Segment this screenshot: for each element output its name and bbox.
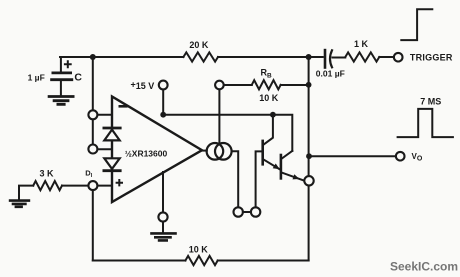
plus polarity mark of C (65, 61, 71, 67)
pin mirror output (234, 207, 243, 216)
svg-text:1 K: 1 K (354, 39, 369, 49)
diode D1a upper linearizing diode (104, 128, 120, 140)
wire non-inverting input node D1 (97, 185, 112, 187)
terminal VO (396, 152, 405, 161)
ground below 3 K (10, 201, 29, 207)
wire +15V supply drop (162, 89, 164, 114)
resistor 10 K bottom (185, 256, 217, 265)
node junction RB right (306, 82, 312, 88)
resistor 1 K (345, 52, 379, 61)
pin darlington base (251, 207, 260, 216)
ground below op-amp (152, 233, 176, 240)
node junction output (306, 153, 312, 159)
resistor 3 K (33, 181, 62, 190)
svg-text:TRIGGER: TRIGGER (410, 52, 453, 62)
plus sign of op-amp (117, 180, 122, 185)
wire diode bias (97, 148, 112, 150)
wire 3K to node (19, 186, 88, 200)
terminal TRIGGER (394, 53, 403, 62)
svg-text:3 K: 3 K (39, 168, 54, 178)
wire right rail (308, 57, 310, 261)
node junction Q1 collector (270, 112, 276, 118)
wire left input rail (92, 57, 94, 261)
svg-text:1 µF: 1 µF (28, 72, 45, 82)
node junction V+ (160, 112, 166, 118)
pin RB supply (215, 81, 224, 90)
pin buffer output (304, 176, 313, 185)
wire bottom feedback rail (93, 260, 309, 262)
node junction top right (306, 54, 312, 60)
svg-text:10 K: 10 K (189, 245, 209, 255)
wire top rail left (60, 56, 309, 58)
resistor RB 10 K (252, 80, 281, 89)
transistor Q1 (263, 115, 280, 170)
pin non-inverting input (88, 181, 97, 190)
pin amp bias (158, 212, 167, 221)
waveform 7 MS pulse (398, 109, 453, 137)
capacitor C plates (52, 73, 72, 80)
svg-text:0.01 µF: 0.01 µF (316, 69, 345, 79)
svg-text:+15 V: +15 V (131, 79, 155, 90)
wire capacitor C branch (60, 57, 62, 95)
wire pin link (243, 211, 251, 213)
waveform trigger edge (401, 9, 432, 40)
capacitor 0.01 uF (309, 50, 346, 67)
op-amp U1 half XR13600 triangle (112, 97, 202, 203)
wire inverting input (97, 114, 112, 116)
svg-text:C: C (74, 72, 82, 84)
wire to trigger (379, 56, 394, 58)
pin inverting input (88, 110, 97, 119)
svg-text:7 MS: 7 MS (420, 96, 441, 106)
svg-text:20 K: 20 K (189, 40, 209, 50)
pin diode bias (88, 145, 97, 154)
svg-text:SeekIC.com: SeekIC.com (390, 260, 458, 274)
svg-text:10 K: 10 K (259, 93, 279, 103)
node junction top-left (90, 54, 96, 60)
wire darlington base riser (256, 151, 262, 207)
wire mirror output down (232, 151, 239, 207)
current mirror U1 output (202, 143, 232, 160)
transistor Q2 (281, 151, 305, 181)
wire V+ rail to darlington collectors (163, 115, 292, 151)
minus sign of op-amp (120, 105, 127, 108)
svg-text:½XR13600: ½XR13600 (125, 149, 168, 159)
wire RB pin drop to current mirror (218, 90, 220, 145)
wire output to VO (309, 155, 396, 157)
resistor 20 K (183, 52, 218, 61)
wire op-amp bias pin drop (162, 172, 164, 232)
diode D1b lower linearizing diode (104, 158, 120, 170)
pin +15 V (159, 81, 168, 90)
ground below capacitor C (49, 97, 73, 105)
wire RB leads (224, 84, 309, 86)
